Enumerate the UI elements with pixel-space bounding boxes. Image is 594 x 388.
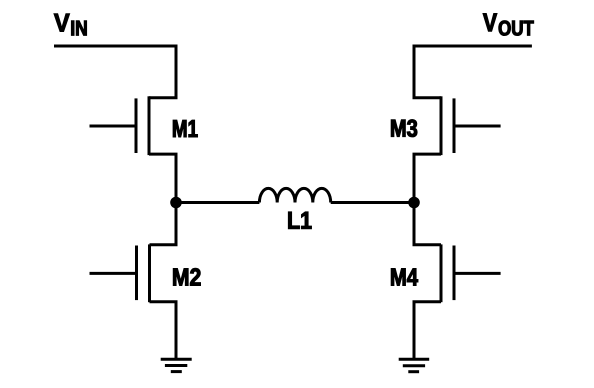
wire node A to inductor L1 left lead <box>176 201 259 204</box>
label M1 <box>173 120 197 137</box>
label M4 <box>391 269 418 286</box>
node A (junction dot) <box>170 197 182 209</box>
label M3 <box>391 120 417 137</box>
wire M4 source to right ground <box>414 302 441 359</box>
transistor M3 <box>441 96 501 155</box>
transistor M4 <box>441 244 501 302</box>
net label VOUT <box>483 14 534 36</box>
wire VIN top rail into M1 drain <box>54 46 176 98</box>
label M2 <box>173 268 200 285</box>
wire node B to M4 drain <box>414 203 441 245</box>
value label L1 <box>288 212 311 229</box>
wire VOUT top rail into M3 drain <box>414 46 532 98</box>
ground right <box>399 359 430 371</box>
inductor L1 <box>259 188 330 202</box>
net label VIN <box>54 14 86 36</box>
wire M2 source to left ground <box>150 302 177 359</box>
node B (junction dot) <box>408 197 420 209</box>
wire inductor L1 right lead to node B <box>331 201 414 204</box>
wire M3 source to node B <box>414 154 441 202</box>
wire M1 source to node A <box>149 154 176 202</box>
transistor M1 <box>90 96 150 155</box>
wire node A to M2 drain <box>150 203 177 245</box>
transistor M2 <box>90 244 150 302</box>
ground left <box>161 359 192 371</box>
